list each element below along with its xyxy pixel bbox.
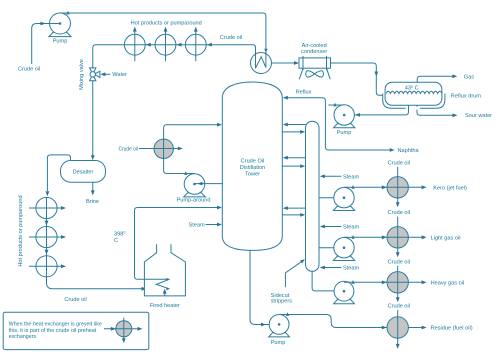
svg-text:Gas: Gas — [464, 74, 474, 80]
residue line from P3 to E12 — [279, 312, 427, 329]
air-cooled condenser AC1 — [299, 56, 331, 79]
label Gas — [464, 74, 474, 80]
label Mixing valve (rotated) — [79, 59, 85, 90]
label Crude oil (inlet) — [18, 67, 40, 73]
heat exchanger E4 (crude preheat, top train) — [185, 27, 211, 62]
pump P5 — [333, 188, 354, 211]
crude oil inlet line to P1 — [32, 22, 60, 64]
label Crude oil above E9 — [388, 160, 410, 166]
P5 discharge through E9 to product — [344, 185, 427, 189]
svg-text:Crude oil: Crude oil — [388, 210, 410, 216]
stripper product to P6 — [319, 247, 344, 249]
svg-text:Water: Water — [112, 72, 127, 78]
svg-text:Brine: Brine — [86, 199, 99, 205]
svg-text:Residue (fuel oil): Residue (fuel oil) — [431, 326, 473, 332]
steam line into tower — [206, 223, 223, 227]
label Fired heater — [150, 303, 180, 309]
svg-text:Sour water: Sour water — [465, 113, 492, 119]
svg-text:Reflux: Reflux — [296, 89, 312, 95]
label Kero (jet fuel) — [433, 186, 467, 192]
label Steam y=226.5 — [343, 225, 360, 231]
tower sidecut draw to stripper at y=166.1 — [282, 164, 305, 168]
svg-text:Heavy gas oil: Heavy gas oil — [431, 281, 465, 287]
svg-text:Crude oil: Crude oil — [64, 297, 86, 303]
svg-text:Pump: Pump — [53, 39, 68, 45]
pump P3 (bottoms pump) — [269, 315, 290, 346]
stripper vapour return to tower at y=157.7 — [283, 156, 306, 160]
sour water line from RD1 — [417, 105, 458, 117]
crude oil distillation tower T1 — [222, 82, 282, 250]
pump P2 (pump-around) — [177, 174, 211, 204]
steam line into stripper at y=267.5 — [320, 266, 342, 270]
steam line into stripper at y=176.3 — [320, 174, 342, 178]
heat exchanger E3 (crude preheat, top train) — [155, 27, 181, 62]
steam line into stripper at y=226.5 — [320, 225, 342, 229]
svg-text:Pump: Pump — [271, 340, 286, 346]
svg-text:Desalter: Desalter — [73, 169, 94, 175]
crude line down the preheat stack to fired heater — [45, 197, 170, 290]
svg-text:Steam: Steam — [343, 174, 360, 180]
tower bottoms line to P3 — [250, 250, 279, 326]
crude oil line through E9 — [396, 167, 400, 208]
label Crude oil above E10 — [388, 210, 410, 216]
svg-text:Crude oil: Crude oil — [119, 146, 139, 152]
P6 discharge through E10 to product — [344, 235, 427, 239]
label Crude oil (at E8) — [119, 146, 139, 152]
tower sidecut draw to stripper at y=214.9 — [282, 213, 305, 217]
liquid level wave in RD1 — [386, 91, 442, 93]
pump P6 — [333, 238, 354, 261]
stripper bottoms to P7 — [312, 271, 344, 291]
crude oil line through E11 — [396, 266, 400, 303]
sidecut strippers column S1 — [306, 121, 320, 271]
svg-text:Crude oil: Crude oil — [388, 260, 410, 266]
svg-text:Crude Oil: Crude Oil — [241, 158, 265, 164]
svg-text:Light gas oil: Light gas oil — [431, 236, 461, 242]
heater outlet riser to tower feed — [135, 206, 223, 280]
P1 discharge line along top to overhead exchanger E1 — [60, 11, 268, 68]
svg-text:C: C — [114, 238, 118, 244]
label Hot products or pumparound (left, rotated) — [18, 195, 24, 266]
svg-text:Steam: Steam — [343, 225, 360, 231]
svg-text:Hot products or pumparound: Hot products or pumparound — [131, 20, 202, 26]
crude oil line through E10 — [396, 217, 400, 258]
label Crude oil above E11 — [388, 260, 410, 266]
svg-text:Pump: Pump — [337, 130, 352, 136]
stripper vapour return to tower at y=124.5 — [283, 123, 306, 127]
heat exchanger E10 (crude preheat, grey) — [387, 227, 408, 248]
water line into V1 — [100, 72, 110, 76]
heat exchanger E12 (residue vs crude, grey) — [387, 317, 408, 338]
heat exchanger E8 (pump-around vs crude, grey) — [154, 139, 173, 158]
label Steam y=267.5 — [343, 266, 360, 272]
svg-text:Steam: Steam — [343, 266, 360, 272]
reflux drum RD1 vessel — [385, 82, 442, 105]
label Crude oil above E12 — [388, 304, 410, 310]
heat exchanger E5 (crude preheat, left stack) — [29, 197, 66, 218]
line E1 to air-cooled condenser — [272, 61, 300, 65]
P7 discharge through E11 to product — [344, 280, 427, 284]
heat exchanger E1 (overhead condenser coil in circle) — [207, 45, 272, 74]
heat exchanger E7 (crude preheat, left stack) — [29, 256, 66, 277]
label Sour water — [465, 113, 492, 119]
label Heavy gas oil — [431, 281, 465, 287]
desalter outlet to preheat stack — [46, 155, 71, 196]
reflux drum RD1 outer shell — [383, 94, 445, 109]
label Air-cooled condenser — [301, 43, 327, 55]
mixing valve V1 — [90, 68, 100, 81]
svg-text:Pump-around: Pump-around — [177, 198, 211, 204]
P4 discharge to reflux/naphtha header — [328, 103, 344, 107]
svg-text:exchangers.: exchangers. — [9, 334, 38, 340]
label Residue (fuel oil) — [431, 326, 473, 332]
svg-text:this, it is part of the crude: this, it is part of the crude oil prehea… — [9, 328, 97, 334]
condenser outlet to reflux drum — [330, 63, 383, 95]
pump P4 (reflux pump) — [333, 105, 354, 136]
svg-text:Crude oil: Crude oil — [388, 160, 410, 166]
svg-text:strippers: strippers — [271, 299, 293, 305]
label Steam (tower) — [189, 223, 206, 229]
label Reflux — [296, 89, 312, 95]
pump-around draw line from tower — [195, 182, 223, 186]
svg-text:Hot products or pumparound: Hot products or pumparound — [18, 195, 24, 266]
label Naphtha — [398, 148, 420, 154]
label Sidecut strippers — [271, 293, 293, 305]
label 43 C in RD1 — [405, 85, 419, 92]
svg-text:Fired heater: Fired heater — [150, 303, 180, 309]
crude oil line through E12 — [396, 310, 400, 349]
annotation line to strippers — [285, 259, 305, 287]
svg-text:Steam: Steam — [189, 223, 206, 229]
heat exchanger E11 (crude preheat, grey) — [387, 272, 408, 293]
desalter D1 — [61, 161, 106, 183]
burner arrow in H1 — [163, 289, 167, 296]
crude oil line leaving E1 through preheat train — [93, 45, 207, 68]
svg-text:Kero (jet fuel): Kero (jet fuel) — [433, 186, 467, 192]
svg-text:Distillation: Distillation — [240, 165, 266, 171]
gas line from RD1 — [417, 74, 457, 82]
label Water — [112, 72, 127, 78]
svg-text:Crude oil: Crude oil — [220, 35, 242, 41]
svg-text:Reflux drum: Reflux drum — [451, 93, 481, 99]
heat exchanger E2 (crude preheat, top train) — [124, 27, 150, 62]
label 398 C — [114, 231, 125, 244]
tower label — [240, 158, 266, 177]
RD1 bottoms to reflux pump P4 — [344, 105, 420, 117]
heat exchanger E9 (crude preheat, grey) — [387, 177, 408, 198]
line V1 to desalter — [91, 81, 95, 160]
svg-text:Crude oil: Crude oil — [18, 67, 40, 73]
label Reflux drum — [451, 93, 481, 99]
label Hot products or pumparound (top) — [131, 20, 202, 26]
reflux and naphtha header — [283, 96, 395, 152]
svg-text:Mixing valve: Mixing valve — [79, 59, 85, 90]
svg-text:condenser: condenser — [301, 49, 327, 55]
legend heat exchanger icon — [104, 318, 142, 344]
label Crude oil (bottom) — [64, 297, 86, 303]
heat exchanger E6 (crude preheat, left stack) — [29, 226, 66, 247]
legend text — [9, 322, 102, 340]
label Brine — [86, 199, 99, 205]
svg-text:Naphtha: Naphtha — [398, 148, 420, 154]
stripper product to P5 — [319, 197, 344, 199]
stripper vapour return to tower at y=208.1 — [283, 206, 306, 210]
pump P7 — [334, 281, 355, 303]
svg-text:Crude oil: Crude oil — [388, 304, 410, 310]
label Light gas oil — [431, 236, 461, 242]
fired heater H1 — [144, 244, 185, 296]
label Crude oil (top train) — [220, 35, 242, 41]
crude oil branch through E8 — [139, 147, 183, 151]
tower sidecut draw to stripper at y=131.9 — [282, 130, 305, 134]
svg-text:Tower: Tower — [245, 172, 260, 178]
pump-around return line into tower — [164, 123, 222, 175]
legend box — [3, 312, 149, 349]
svg-text:When the heat exchanger is gre: When the heat exchanger is greyed like — [9, 322, 102, 328]
pump P1 (crude oil charge pump) — [49, 13, 71, 45]
label Steam y=176.3 — [343, 174, 360, 180]
brine line out of desalter — [91, 182, 95, 195]
